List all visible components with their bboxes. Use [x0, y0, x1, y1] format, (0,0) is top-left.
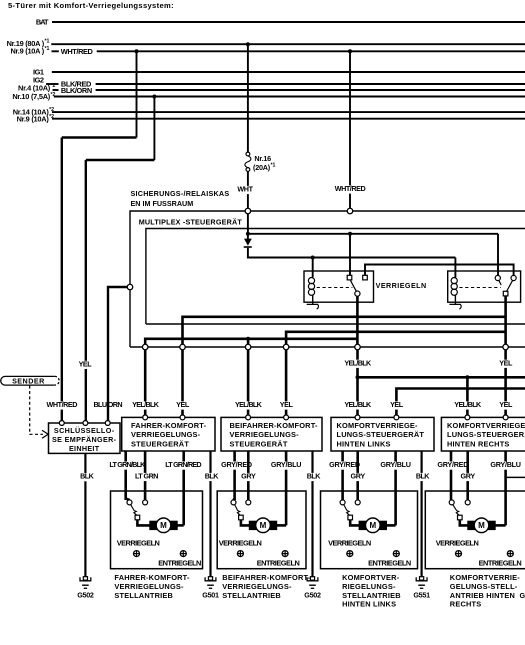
svg-text:VERRIEGELUNGS-: VERRIEGELUNGS- — [114, 582, 184, 591]
svg-text:YEL/BLK: YEL/BLK — [132, 400, 160, 409]
svg-text:Nr.9 (10A): Nr.9 (10A) — [17, 114, 50, 123]
svg-text:ENTRIEGELN: ENTRIEGELN — [158, 559, 201, 568]
svg-text:GELUNGS-STELL-: GELUNGS-STELL- — [450, 582, 518, 591]
svg-text:VERRIEGELUNGS-: VERRIEGELUNGS- — [222, 582, 292, 591]
svg-text:5-Türer mit Komfort-Verriegelu: 5-Türer mit Komfort-Verriegelungssystem: — [8, 1, 174, 10]
svg-text:RIEGELUNGS-: RIEGELUNGS- — [342, 582, 396, 591]
svg-text:YEL: YEL — [79, 359, 93, 368]
svg-text:LT GRN: LT GRN — [135, 472, 158, 481]
svg-text:HINTEN LINKS: HINTEN LINKS — [337, 439, 391, 448]
svg-text:STEUERGERÄT: STEUERGERÄT — [131, 439, 189, 448]
svg-text:M: M — [160, 521, 167, 530]
svg-text:BLK: BLK — [307, 472, 321, 481]
svg-text:FAHRER-KOMFORT-: FAHRER-KOMFORT- — [131, 421, 207, 430]
svg-text:Nr.16: Nr.16 — [254, 154, 271, 163]
svg-text:EINHEIT: EINHEIT — [69, 444, 100, 453]
svg-text:*2: *2 — [51, 83, 56, 89]
svg-text:YEL/BLK: YEL/BLK — [344, 358, 372, 367]
svg-text:GRY: GRY — [460, 472, 475, 481]
svg-text:WHT/RED: WHT/RED — [335, 184, 366, 193]
svg-text:KOMFORTVER-: KOMFORTVER- — [342, 573, 400, 582]
svg-text:GRY/RED: GRY/RED — [437, 460, 468, 469]
svg-text:STELLANTRIEB: STELLANTRIEB — [342, 591, 401, 600]
svg-text:(20A): (20A) — [253, 163, 271, 172]
svg-text:VERRIEGELUNGS-: VERRIEGELUNGS- — [230, 430, 300, 439]
svg-text:YEL/BLK: YEL/BLK — [235, 400, 263, 409]
svg-text:ANTRIEB HINTEN: ANTRIEB HINTEN — [450, 591, 515, 600]
svg-text:WHT/RED: WHT/RED — [46, 400, 77, 409]
svg-text:G502: G502 — [77, 591, 94, 600]
svg-text:GRY/BLU: GRY/BLU — [271, 460, 301, 469]
svg-text:LT GRN/RED: LT GRN/RED — [165, 460, 201, 469]
svg-text:WHT: WHT — [237, 185, 253, 194]
svg-text:STEUERGERÄT: STEUERGERÄT — [230, 439, 288, 448]
svg-text:YEL/BLK: YEL/BLK — [344, 400, 372, 409]
svg-text:VERRIEGELN: VERRIEGELN — [436, 538, 479, 547]
svg-text:LUNGS-STEUERGERÄT: LUNGS-STEUERGERÄT — [447, 430, 525, 439]
svg-text:SCHLÜSSELLO-: SCHLÜSSELLO- — [54, 426, 115, 435]
svg-text:BLK: BLK — [205, 472, 219, 481]
svg-text:YEL: YEL — [176, 400, 190, 409]
svg-text:EN IM FUSSRAUM: EN IM FUSSRAUM — [131, 199, 194, 208]
svg-text:BEIFAHRER-KOMFORT-: BEIFAHRER-KOMFORT- — [222, 573, 311, 582]
svg-text:Nr.9 (10A ): Nr.9 (10A ) — [10, 47, 44, 56]
svg-text:BEIFAHRER-KOMFORT-: BEIFAHRER-KOMFORT- — [230, 421, 319, 430]
svg-text:ENTRIEGELN: ENTRIEGELN — [479, 559, 522, 568]
svg-text:G501: G501 — [202, 591, 219, 600]
svg-text:BAT: BAT — [36, 17, 49, 26]
svg-text:*1: *1 — [45, 39, 50, 45]
svg-text:WHT/RED: WHT/RED — [61, 47, 94, 56]
svg-text:SICHERUNGS-/RELAISKAS: SICHERUNGS-/RELAISKAS — [131, 189, 230, 198]
svg-text:YEL: YEL — [499, 358, 513, 367]
svg-text:VERRIEGELN: VERRIEGELN — [117, 538, 160, 547]
svg-text:VERRIEGELUNGS-: VERRIEGELUNGS- — [131, 430, 201, 439]
svg-text:GRY/RED: GRY/RED — [329, 460, 360, 469]
svg-text:GRY/BLU: GRY/BLU — [490, 460, 520, 469]
svg-text:STELLANTRIEB: STELLANTRIEB — [222, 591, 281, 600]
svg-text:SE EMPFÄNGER-: SE EMPFÄNGER- — [52, 435, 117, 444]
svg-text:G502: G502 — [304, 591, 321, 600]
svg-text:YEL: YEL — [280, 400, 294, 409]
svg-text:BLK/ORN: BLK/ORN — [61, 86, 92, 95]
svg-text:M: M — [260, 521, 267, 530]
svg-text:BLK: BLK — [80, 472, 94, 481]
svg-text:BLK: BLK — [416, 472, 430, 481]
svg-text:HINTEN RECHTS: HINTEN RECHTS — [447, 439, 510, 448]
svg-text:LUNGS-STEUERGERÄT: LUNGS-STEUERGERÄT — [337, 430, 425, 439]
svg-text:M: M — [478, 521, 485, 530]
svg-text:KOMFORTVERRIE-: KOMFORTVERRIE- — [450, 573, 520, 582]
svg-text:*1: *1 — [271, 162, 276, 168]
svg-text:FAHRER-KOMFORT-: FAHRER-KOMFORT- — [114, 573, 190, 582]
svg-text:YEL: YEL — [390, 400, 404, 409]
svg-text:YEL: YEL — [499, 400, 513, 409]
svg-text:ENTRIEGELN: ENTRIEGELN — [257, 559, 300, 568]
svg-text:MULTIPLEX -STEUERGERÄT: MULTIPLEX -STEUERGERÄT — [139, 218, 243, 227]
svg-text:HINTEN LINKS: HINTEN LINKS — [342, 600, 396, 609]
svg-text:KOMFORTVERRIEGE-: KOMFORTVERRIEGE- — [337, 421, 419, 430]
svg-text:GRY/BLU: GRY/BLU — [380, 460, 410, 469]
svg-text:*1: *1 — [45, 46, 50, 52]
svg-text:GRY: GRY — [241, 472, 256, 481]
svg-text:RECHTS: RECHTS — [450, 600, 482, 609]
svg-text:M: M — [369, 521, 376, 530]
svg-text:VERRIEGELN: VERRIEGELN — [328, 538, 371, 547]
svg-text:KOMFORTVERRIEGE-: KOMFORTVERRIEGE- — [447, 421, 525, 430]
svg-text:ENTRIEGELN: ENTRIEGELN — [368, 559, 411, 568]
svg-text:VERRIEGELN: VERRIEGELN — [376, 281, 427, 290]
svg-text:G552: G552 — [520, 591, 525, 600]
svg-text:GRY: GRY — [350, 472, 365, 481]
svg-text:Nr.10 (7,5A): Nr.10 (7,5A) — [12, 92, 50, 101]
svg-text:SENDER: SENDER — [12, 376, 45, 385]
svg-text:YEL/BLK: YEL/BLK — [454, 400, 482, 409]
svg-text:VERRIEGELN: VERRIEGELN — [219, 538, 262, 547]
svg-text:G551: G551 — [413, 591, 430, 600]
svg-text:LT GRN/BLK: LT GRN/BLK — [109, 460, 146, 469]
svg-text:STELLANTRIEB: STELLANTRIEB — [114, 591, 173, 600]
